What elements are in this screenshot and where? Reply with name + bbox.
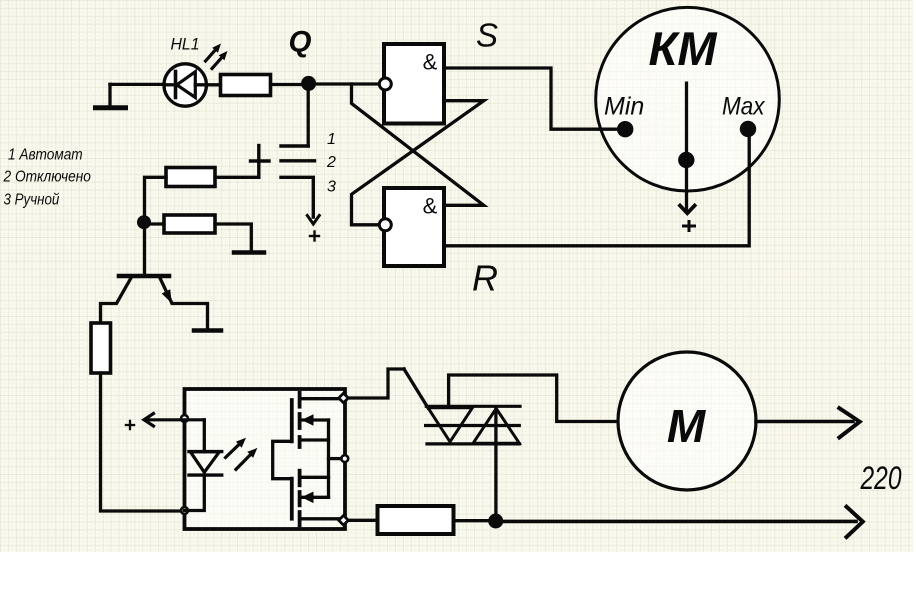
arrow head bottom	[847, 507, 863, 537]
wire motor to 220 line	[756, 420, 853, 424]
resistor (emitter, vertical)	[91, 323, 111, 373]
svg-text:3: 3	[327, 179, 336, 196]
legend text	[3, 147, 92, 209]
svg-text:2: 2	[326, 154, 336, 171]
wire resistor to node	[454, 519, 491, 522]
lower MOSFET source arrow	[302, 492, 329, 504]
resistor (triac gate, bottom)	[378, 506, 454, 534]
switch arrow head	[307, 216, 319, 225]
opto LED light arrows	[226, 438, 258, 470]
svg-text:&: &	[423, 50, 438, 75]
wire Q tap to DD1.2	[352, 84, 484, 205]
switch contact 1	[281, 144, 308, 147]
wire top drain	[301, 397, 339, 400]
wire DD1.1 output to S node	[444, 68, 621, 129]
plus label (opto anode)	[126, 421, 134, 429]
plus label under switch arrow	[310, 232, 319, 241]
HL1 light arrows	[206, 44, 228, 69]
svg-text:220: 220	[860, 460, 902, 496]
svg-text:1 Автомат: 1 Автомат	[8, 147, 83, 164]
switch SA1: wire Q down	[307, 84, 310, 146]
opto terminal (anode)	[181, 415, 188, 422]
wire triac top to motor	[449, 375, 617, 422]
opto MOSFET channels	[298, 393, 302, 526]
wire resistor to wiper	[215, 176, 259, 179]
wire source/body ladder	[301, 420, 341, 497]
motor M	[618, 352, 756, 490]
upper MOSFET source arrow	[302, 414, 329, 426]
plus label (KM)	[684, 222, 695, 231]
svg-text:M: M	[667, 400, 707, 452]
wire ground to LED	[110, 83, 165, 86]
wire bottom line to 220	[496, 520, 856, 524]
ground (lower resistor)	[234, 250, 264, 255]
node Q	[301, 76, 316, 91]
svg-text:Q: Q	[289, 26, 312, 59]
svg-text:&: &	[423, 194, 438, 219]
switch contact 2	[281, 159, 315, 162]
svg-text:КМ: КМ	[648, 22, 717, 75]
wire lower resistor to ground	[215, 224, 251, 251]
svg-text:2 Отключено: 2 Отключено	[3, 169, 92, 186]
wire/arrow plus into opto anode	[144, 414, 204, 427]
wire junction to lower resistor	[144, 222, 164, 225]
svg-text:R: R	[472, 258, 498, 299]
opto terminal diamond (bottom drain)	[339, 516, 349, 526]
node Min	[617, 121, 633, 137]
KM plunger wire	[685, 83, 688, 210]
opto MOSFET gates	[290, 400, 294, 519]
node (bottom junction)	[488, 514, 503, 529]
wire triac gate diagonal	[404, 369, 428, 408]
ground (transistor)	[194, 328, 221, 333]
svg-text:Max: Max	[722, 93, 766, 121]
resistor (lower of divider)	[164, 215, 215, 233]
resistor (series with HL1)	[221, 75, 271, 96]
opto terminal (cathode)	[181, 507, 188, 514]
optocoupler U2 box	[185, 389, 346, 529]
svg-text:1: 1	[327, 131, 336, 148]
KM plunger arrow head	[680, 206, 695, 214]
wire bottom drain	[301, 517, 339, 520]
node Max	[740, 121, 756, 137]
wire emitter resistor to opto LED cathode	[101, 373, 181, 511]
wire bottom drain diamond to resistor	[350, 519, 378, 522]
LED HL1	[164, 64, 221, 106]
wire resistor left down to junction	[145, 177, 167, 222]
switch contact 3 + wire to plus	[281, 177, 313, 217]
node KM common	[678, 152, 694, 168]
transistor Q1	[101, 276, 208, 330]
switch wiper	[251, 146, 270, 178]
svg-text:HL1: HL1	[171, 35, 200, 54]
wire triac MT to bottom node	[494, 408, 497, 521]
wire Q to gate input	[309, 82, 380, 85]
opto terminal (sources)	[341, 455, 348, 462]
arrow head top	[839, 408, 859, 437]
contactor KM circle	[596, 7, 780, 191]
svg-text:3 Ручной: 3 Ручной	[4, 192, 60, 209]
triac VS1	[426, 406, 520, 444]
wire resistor to node Q	[271, 83, 307, 86]
resistor (upper of divider)	[166, 168, 215, 187]
wire junction down to transistor base	[143, 222, 146, 274]
wire top drain to triac gate	[350, 369, 405, 398]
wire DD1.1 feedback	[352, 101, 484, 225]
node (divider junction)	[137, 215, 151, 229]
svg-text:Min: Min	[604, 93, 644, 121]
wire DD1.2 output to Max	[444, 133, 749, 246]
wire gate link	[273, 441, 292, 478]
opto LED	[185, 420, 222, 511]
ground (left of HL1)	[96, 84, 126, 108]
opto terminal diamond (top drain)	[339, 393, 349, 403]
svg-text:S: S	[476, 17, 498, 54]
NAND gate DD1.1	[379, 44, 444, 124]
NAND gate DD1.2	[379, 188, 444, 266]
